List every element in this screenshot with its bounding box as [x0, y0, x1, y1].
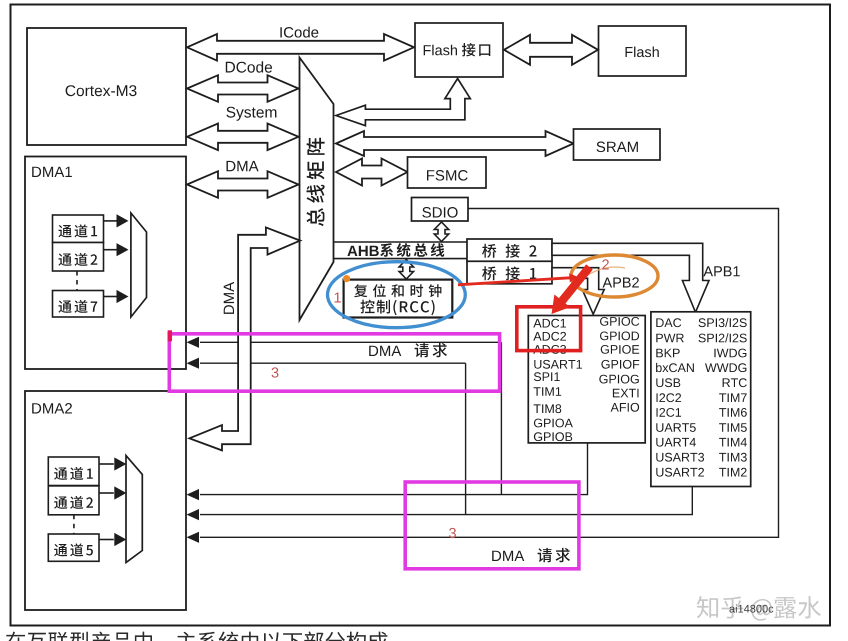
blue ellipse around RCC: [328, 262, 466, 328]
AHB system bus bar: [334, 242, 468, 259]
APB2 DMA request line: [200, 443, 588, 495]
Cortex-M3 block: [27, 28, 186, 145]
SRAM block: [574, 129, 661, 160]
SDIO to AHB arrow: [434, 222, 448, 242]
bridge 2 block: [467, 239, 552, 261]
DCode label: [226, 61, 272, 72]
RCC block (1): [344, 280, 453, 318]
number 3 lower: [449, 528, 456, 538]
bottom caption: [6, 632, 388, 641]
FSMC block: [408, 157, 487, 188]
red annotation arrow to APB2: [458, 271, 589, 287]
ICode bus arrow: [187, 34, 414, 61]
APB1 label: [703, 266, 739, 276]
lower DMA request label: [492, 548, 570, 562]
System label: [226, 107, 276, 121]
number 2: [602, 259, 609, 269]
APB2 peripheral list: [533, 317, 639, 441]
figure number: [730, 605, 774, 613]
APB2 DMA1 branch: [200, 342, 501, 494]
right peripheral block: [651, 312, 751, 487]
left peripheral block: [528, 316, 645, 443]
SRAM bus arrow: [336, 131, 574, 156]
Flash iface to Flash arrow: [504, 35, 598, 65]
upper DMA request box (3): [169, 334, 499, 391]
bus matrix to Flash iface bent arrow: [336, 79, 470, 126]
DMA2 ch5 arrow: [99, 533, 126, 546]
Flash interface block: [415, 23, 503, 77]
DMA2 request arrowhead 2: [187, 509, 200, 520]
DMA1 ch2 arrow: [103, 243, 128, 256]
DCode bus arrow: [187, 75, 299, 102]
SDIO request line: [200, 209, 779, 538]
DMA1 channel dots: [76, 271, 78, 291]
red box around ADC: [517, 307, 581, 351]
red annotation arrow to ADC: [552, 264, 593, 314]
DMA1 request arrowhead 2: [187, 358, 200, 369]
DMA channel bent double arrow: [189, 227, 300, 450]
DMA1 ch7 arrow: [103, 290, 128, 303]
APB1 DMA1 branch: [200, 363, 466, 514]
APB2 label: [603, 277, 639, 287]
SDIO block: [412, 198, 469, 222]
DMA2 ch1 arrow: [99, 457, 126, 470]
DMA1 request arrowhead 1: [187, 337, 200, 348]
DMA1 mux: [131, 213, 147, 317]
APB1 DMA request line: [200, 486, 692, 515]
APB2 pipe arrow: [552, 268, 604, 315]
DMA1 channel 2: [53, 243, 104, 272]
DMA2 channel dots: [73, 515, 75, 534]
DMA bus label: [227, 161, 259, 171]
DMA1 ch1 arrow: [103, 214, 128, 227]
FSMC bus arrow: [336, 159, 408, 186]
number 3 upper: [272, 367, 279, 377]
DMA2 channel 2: [48, 486, 99, 515]
DMA2 ch2 arrow: [99, 486, 126, 499]
upper DMA request label: [369, 343, 447, 357]
bridge 1 block: [467, 261, 552, 284]
DMA2 request arrowhead 3: [187, 532, 200, 543]
APB1 pipe arrow: [552, 243, 709, 312]
orange dot: [343, 275, 350, 282]
watermark: [697, 596, 821, 621]
DMA2 mux: [126, 456, 142, 563]
Flash block: [599, 26, 687, 76]
System bus arrow: [187, 124, 299, 151]
DMA2 request arrowhead 1: [187, 489, 200, 500]
DMA bus arrow: [187, 171, 299, 198]
APB1 peripheral list: [656, 318, 747, 477]
crimson tick: [168, 330, 172, 341]
DMA2 channel 5: [48, 534, 99, 561]
DMA1 block: [25, 157, 186, 370]
orange ellipse around APB2: [571, 255, 658, 297]
DMA2 channel 1: [48, 457, 99, 486]
DMA1 channel 7: [53, 291, 104, 318]
DMA channel label: [224, 282, 234, 314]
DMA1 channel 1: [53, 215, 104, 243]
bus matrix: [300, 58, 334, 321]
AHB to RCC arrow: [399, 260, 413, 280]
number 1: [335, 293, 341, 303]
ICode label: [280, 27, 318, 38]
lower DMA request box (3): [405, 482, 579, 569]
DMA2 block: [25, 391, 186, 610]
